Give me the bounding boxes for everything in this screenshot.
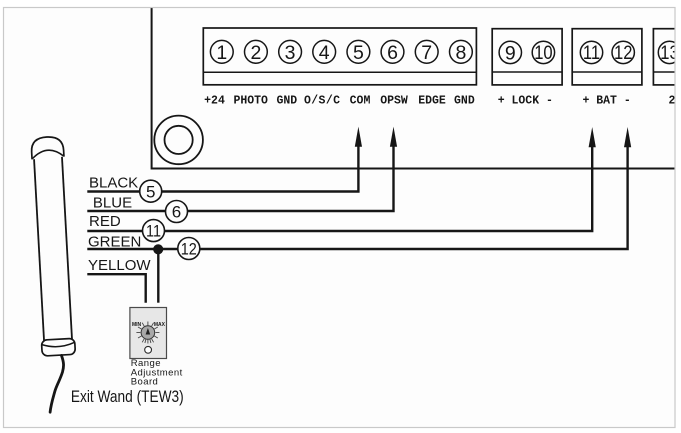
svg-text:GREEN: GREEN xyxy=(88,234,141,251)
svg-text:5: 5 xyxy=(353,42,364,64)
svg-text:BLACK: BLACK xyxy=(89,174,138,191)
svg-text:MAX: MAX xyxy=(154,322,166,328)
svg-text:1: 1 xyxy=(216,42,227,64)
svg-text:4: 4 xyxy=(319,42,330,64)
svg-text:MIN: MIN xyxy=(132,322,142,328)
svg-text:YELLOW: YELLOW xyxy=(88,257,151,274)
svg-text:9: 9 xyxy=(505,42,516,64)
svg-text:12: 12 xyxy=(614,42,632,64)
svg-text:O/S/C: O/S/C xyxy=(304,95,340,108)
svg-text:EDGE: EDGE xyxy=(418,95,446,108)
svg-text:Exit Wand (TEW3): Exit Wand (TEW3) xyxy=(71,388,184,406)
svg-text:5: 5 xyxy=(146,182,155,201)
svg-text:11: 11 xyxy=(146,222,161,240)
svg-text:12: 12 xyxy=(181,240,197,258)
svg-text:10: 10 xyxy=(534,42,552,64)
svg-text:GND: GND xyxy=(276,95,297,108)
svg-text:RED: RED xyxy=(89,213,121,230)
svg-text:BLUE: BLUE xyxy=(93,194,132,211)
svg-text:6: 6 xyxy=(387,42,398,64)
svg-text:+ LOCK -: + LOCK - xyxy=(498,95,553,108)
svg-text:3: 3 xyxy=(285,42,296,64)
svg-text:+ BAT -: + BAT - xyxy=(582,95,630,108)
svg-text:+24: +24 xyxy=(204,95,225,108)
svg-text:8: 8 xyxy=(455,42,466,64)
svg-text:6: 6 xyxy=(172,203,181,222)
svg-text:11: 11 xyxy=(583,42,600,64)
svg-text:Board: Board xyxy=(131,377,159,388)
svg-text:PHOTO: PHOTO xyxy=(233,95,268,108)
svg-text:COM: COM xyxy=(350,95,371,108)
svg-text:OPSW: OPSW xyxy=(380,95,408,108)
svg-text:GND: GND xyxy=(454,95,475,108)
svg-text:7: 7 xyxy=(421,42,432,64)
svg-text:2: 2 xyxy=(250,42,261,64)
